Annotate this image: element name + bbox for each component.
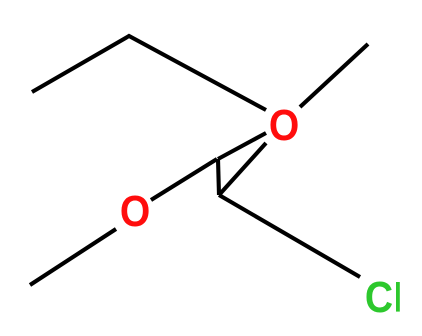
bond CH3-CH (top-left methyl to apex) and apex to O2: polyline [32, 36, 266, 110]
bond CH-CH2 (short vertical) [218, 159, 219, 195]
atom Cl (green): C glyph + l bar [365, 273, 393, 321]
svg-text:C: C [365, 273, 393, 321]
atom O2 (red) [269, 101, 299, 149]
bond CH2-Cl chain (long straight to Cl label) [219, 195, 360, 277]
atom O1 (red) [120, 187, 150, 235]
svg-text:O: O [120, 187, 150, 235]
bond CH-O2 (shallow continuation) [218, 133, 266, 159]
svg-text:O: O [269, 101, 299, 149]
bond O1-CH (acetal carbon) [151, 159, 217, 200]
bond O2-CH3 (methyl upper right) [300, 44, 368, 107]
bond CH3-O1 (lower-left methyl) [30, 229, 116, 285]
bond CH2-O2 (steep, from junction up-right to O2 bottom) [219, 143, 266, 195]
